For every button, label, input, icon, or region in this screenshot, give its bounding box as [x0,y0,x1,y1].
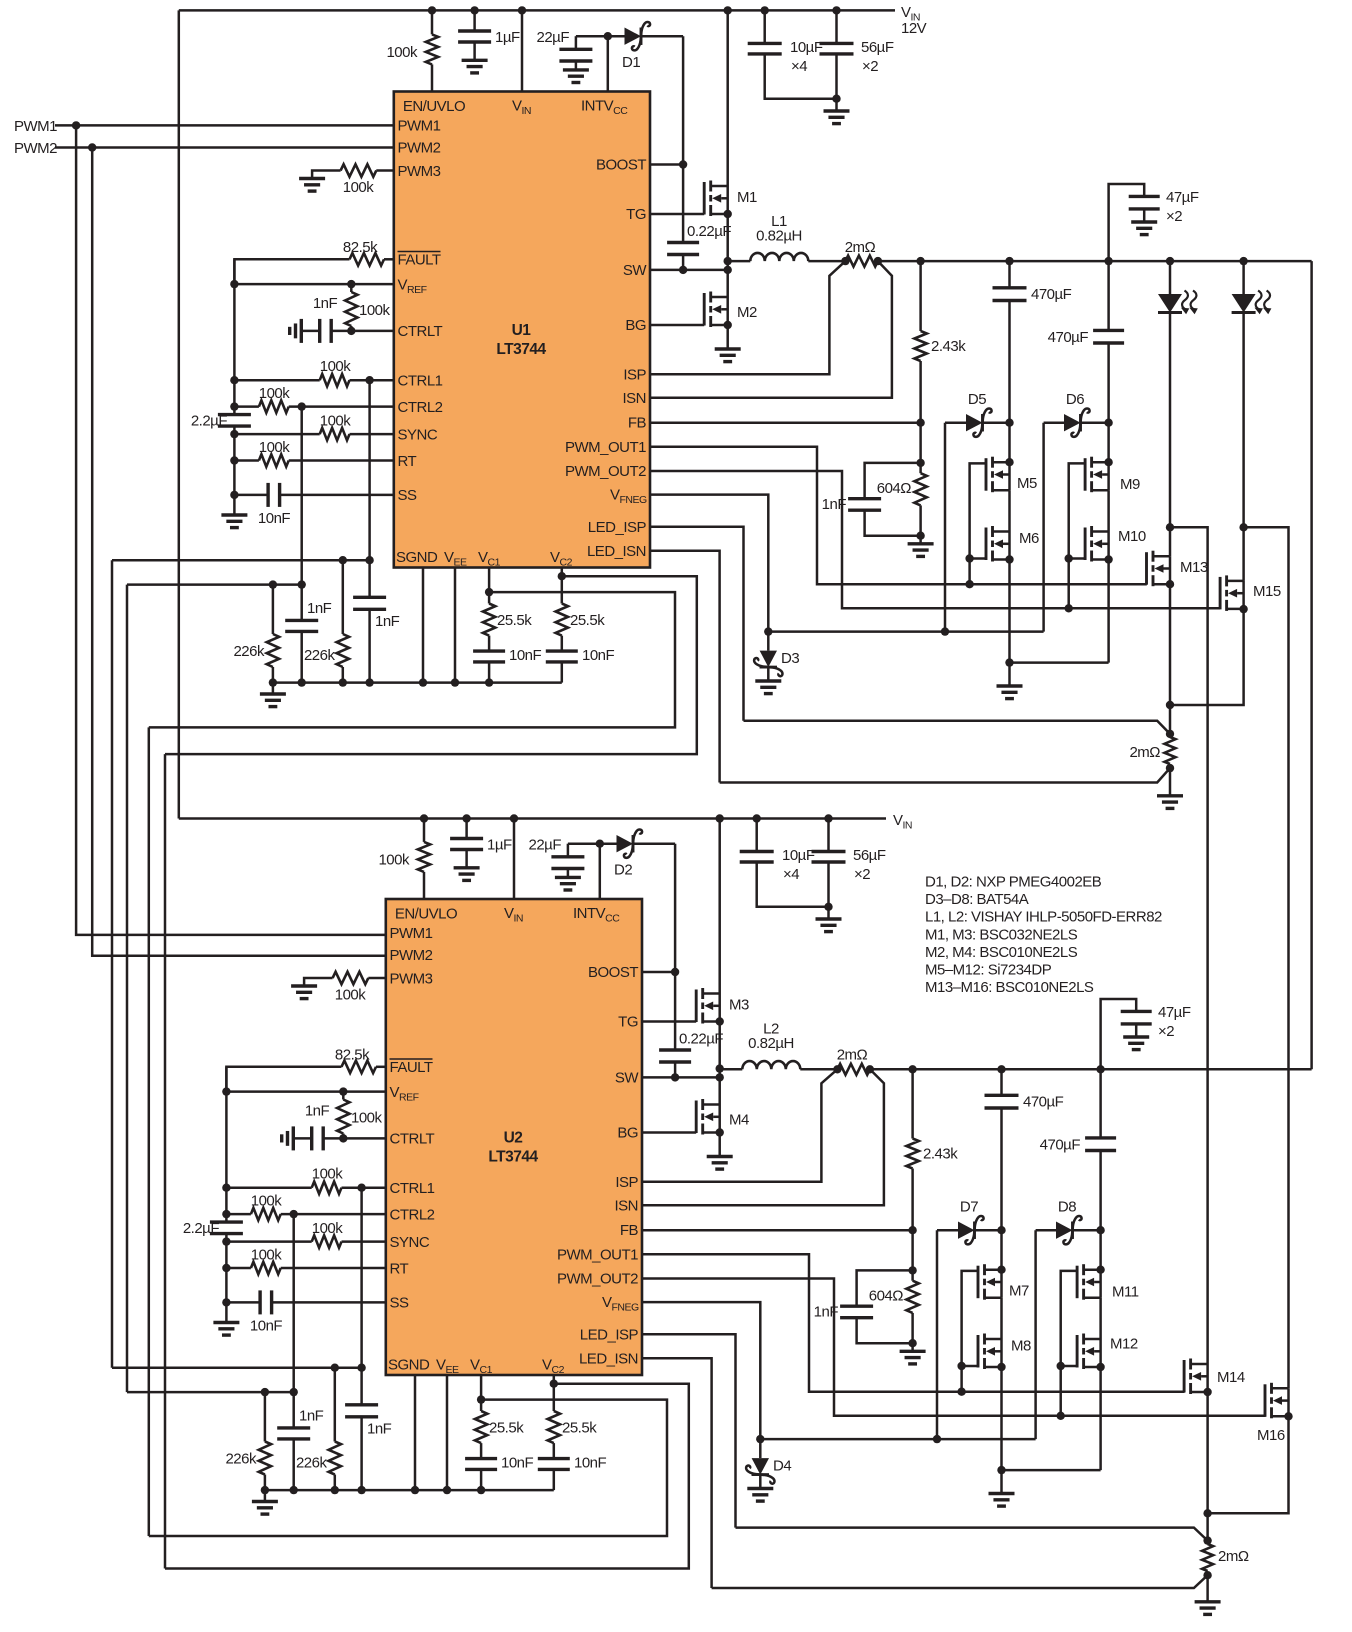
svg-text:100k: 100k [312,1166,344,1183]
svg-text:M10: M10 [1118,528,1146,545]
ground (LED sense, U1 phase) [1157,796,1183,809]
svg-text:604Ω: 604Ω [877,480,912,497]
wire BG pin (U2) [642,1131,696,1134]
diode D2 schottky [614,830,675,879]
capacitor 56µF x2 (U1) [820,6,894,103]
wire M7 source to M8 drain [1000,1298,1003,1339]
resistor 100k (EN/UVLO pull-up, U2) [378,814,430,899]
svg-text:CTRLT: CTRLT [390,1131,435,1148]
wire FB pin (U1) [650,421,921,424]
svg-text:×2: ×2 [854,866,870,883]
wire SW pin (U1) [650,257,732,274]
capacitor 1nF (CTRLT, U1) [301,295,394,343]
capacitor 10nF (VC1, U1) [473,647,541,687]
svg-text:CTRL1: CTRL1 [390,1180,435,1197]
svg-text:M1, M3: BSC032NE2LS: M1, M3: BSC032NE2LS [925,926,1078,943]
wire VREF pin (U1) [230,280,394,288]
capacitor 10nF (VC2, U2) [538,1455,607,1491]
wire PWM1 input [55,121,394,129]
svg-text:LT3744: LT3744 [496,341,546,358]
wire PWM_OUT2 route (U2) [642,1279,1266,1416]
wire VC2 bracket (U2) [165,1384,689,1569]
svg-text:10nF: 10nF [258,510,291,527]
svg-text:D1, D2: NXP PMEG4002EB: D1, D2: NXP PMEG4002EB [925,874,1102,891]
resistor 100k (CTRL1, U2) [222,1166,386,1194]
capacitor 10nF (VC1, U2) [465,1455,533,1495]
transistor M5 NMOS [986,457,1037,493]
resistor 25.5k (VC2, U2) [548,1375,598,1459]
svg-text:ISP: ISP [623,367,646,384]
svg-text:PWM1: PWM1 [390,925,433,942]
svg-text:TG: TG [626,206,646,223]
wire ISN kelvin (U1) [650,261,892,398]
transistor M8 NMOS [978,1334,1031,1372]
svg-text:D1: D1 [622,54,640,71]
resistor 82.5k (FAULT pull-up, U1) [234,239,393,284]
wire CTRL1 share bus (U1) [112,559,370,562]
svg-text:100k: 100k [259,385,291,402]
transistor M2 NMOS [704,292,757,362]
capacitor 47µF x2 (U1) [1109,184,1199,261]
ground (CTRLT cap, U2) [282,1126,294,1150]
svg-text:FAULT: FAULT [398,252,441,269]
op-amp/IC U2 LT3744 body [386,899,642,1375]
svg-text:100k: 100k [320,358,352,375]
transistor M15 NMOS [1170,527,1281,705]
svg-text:BG: BG [625,317,646,334]
svg-text:10nF: 10nF [250,1318,283,1335]
svg-text:1nF: 1nF [313,295,338,312]
svg-text:EN/UVLO: EN/UVLO [403,98,465,115]
svg-text:56µF: 56µF [853,847,886,864]
wire SW pin (U2) [642,1064,724,1081]
svg-text:PWM3: PWM3 [390,971,433,988]
wire VIN pin (U2) [510,814,518,899]
wire M6 source to ground bus [1005,560,1013,667]
wire gate bus M5/M6 [965,463,986,588]
wire VEE pin (U1) [451,568,459,687]
svg-text:FAULT: FAULT [390,1059,433,1076]
transistor M12 NMOS [1077,1334,1138,1372]
svg-text:1nF: 1nF [307,600,332,617]
wire LED_ISP route (U2) [642,1334,1208,1540]
wire SGND rail (U1) [269,678,562,686]
svg-text:0.22µF: 0.22µF [679,1031,723,1048]
svg-text:25.5k: 25.5k [562,1420,597,1437]
svg-text:D4: D4 [773,1458,791,1475]
wire VIN pin (U1) [518,6,526,91]
svg-text:470µF: 470µF [1031,286,1072,303]
svg-text:PWM2: PWM2 [398,140,441,157]
wire M9 source to M10 drain [1107,490,1110,531]
inductor L1 0.82µH [728,213,846,261]
svg-text:100k: 100k [312,1220,344,1237]
ground (soft-start rail, U2) [213,1323,239,1336]
svg-text:ISN: ISN [614,1198,638,1215]
resistor 82.5k (FAULT pull-up, U2) [226,1047,385,1092]
svg-text:D8: D8 [1058,1199,1076,1216]
svg-text:L1, L2: VISHAY IHLP-5050FD-ERR: L1, L2: VISHAY IHLP-5050FD-ERR82 [925,909,1162,926]
resistor 2.43k (U2) [906,1069,958,1234]
wire ISN kelvin (U2) [642,1069,884,1205]
svg-text:2mΩ: 2mΩ [837,1047,868,1064]
capacitor 10µF x4 (U1) [748,6,837,99]
svg-text:M5–M12: Si7234DP: M5–M12: Si7234DP [925,962,1052,979]
wire output rail (U2) [870,1065,1312,1073]
note component list [925,874,1162,997]
ground (LED switch strings, U2) [989,1470,1101,1506]
svg-text:100k: 100k [343,179,375,196]
svg-text:U2: U2 [504,1130,523,1147]
resistor 226k (first, U1) [233,580,279,682]
op-amp/IC U1 LT3744 body [394,92,650,568]
resistor 2mΩ (LED current sense, U2 phase) [1202,1513,1249,1602]
wire VC2 bracket (U1) [165,576,697,754]
transistor M3 NMOS [696,814,749,1104]
wire output rail right edge (shared) [1310,261,1313,1069]
svg-text:BOOST: BOOST [588,964,638,981]
svg-text:M2: M2 [737,304,757,321]
diode D6 schottky [1044,391,1109,437]
capacitor 1nF (CTRLT, U2) [293,1103,386,1151]
svg-text:SW: SW [615,1070,640,1087]
capacitor 1nF (across 604Ω, U2) [814,1270,913,1343]
svg-text:10nF: 10nF [509,647,542,664]
transistor M6 NMOS [986,526,1039,564]
resistor 25.5k (VC1, U1) [483,568,532,652]
svg-text:25.5k: 25.5k [570,612,605,629]
capacitor 10nF (VC2, U1) [546,647,615,683]
capacitor 10nF (SS, U2) [222,1290,386,1334]
IC U1 pin labels [396,98,647,569]
svg-text:100k: 100k [351,1110,383,1127]
ground (SGND rail, U1) [260,683,286,707]
svg-text:2.2µF: 2.2µF [191,413,227,430]
transistor M16 NMOS [1208,1383,1293,1514]
diode D8 schottky [1036,1199,1101,1245]
svg-text:1µF: 1µF [487,837,512,854]
capacitor 1µF (U2) [450,814,512,880]
capacitor 22µF (U1) [537,29,593,83]
diode D7 schottky [937,1199,1002,1245]
svg-text:SYNC: SYNC [398,427,438,444]
wire D8 anode to VFNEG bus [1034,1230,1037,1439]
svg-text:×2: ×2 [862,58,878,75]
svg-text:22µF: 22µF [529,837,562,854]
wire VC1 bracket (U2) [149,1400,667,1536]
svg-text:RT: RT [390,1261,409,1278]
svg-text:FB: FB [620,1222,639,1239]
svg-text:226k: 226k [304,647,336,664]
svg-text:SGND: SGND [388,1357,430,1374]
resistor 100k (VREF to CTRLT, U2) [337,1092,382,1143]
svg-text:M12: M12 [1110,1336,1138,1353]
svg-text:470µF: 470µF [1040,1137,1081,1154]
svg-text:10µF: 10µF [782,847,815,864]
transistor M4 NMOS [696,1099,749,1169]
svg-text:PWM2: PWM2 [14,140,57,157]
wire SGND rail (U2) [261,1486,554,1494]
svg-text:100k: 100k [251,1193,283,1210]
svg-text:ISP: ISP [615,1174,638,1191]
wire BG pin (U1) [650,324,704,327]
svg-text:LED_ISN: LED_ISN [587,543,646,560]
transistor M7 NMOS [978,1264,1029,1300]
wire D1 cathode to BOOST [682,36,685,164]
wire VC1 bracket (U1) [149,592,675,727]
svg-text:12V: 12V [901,20,927,37]
svg-text:1nF: 1nF [367,1421,392,1438]
ground (soft-start rail, U1) [221,515,247,528]
svg-text:TG: TG [618,1014,638,1031]
resistor 226k (first, U2) [225,1388,271,1490]
capacitor 0.22µF (U2) [659,972,723,1082]
svg-text:M7: M7 [1009,1283,1029,1300]
wire M8 source to ground bus [997,1367,1005,1474]
svg-text:2.43k: 2.43k [923,1146,958,1163]
wire CTRL2 share bus (U1) [127,583,302,586]
resistor 100k (SYNC, U1) [230,413,394,441]
IC U2 pin labels [388,905,639,1376]
svg-text:M1: M1 [737,189,757,206]
svg-text:PWM_OUT1: PWM_OUT1 [557,1247,638,1264]
diode D5 schottky [945,391,1010,437]
wire M5 source to M6 drain [1008,490,1011,531]
svg-text:D3–D8: BAT54A: D3–D8: BAT54A [925,891,1029,908]
wire VIN 12V top rail [179,9,895,12]
svg-text:LED_ISP: LED_ISP [588,519,647,536]
svg-text:PWM3: PWM3 [398,163,441,180]
wire D7 anode to VFNEG bus [933,1230,941,1443]
inductor L2 0.82µH [720,1021,838,1070]
svg-text:CTRL2: CTRL2 [398,399,443,416]
wire output rail to 470µF second (U2) [1099,1069,1102,1138]
svg-text:PWM_OUT1: PWM_OUT1 [565,439,646,456]
svg-text:CTRLT: CTRLT [398,323,443,340]
svg-text:0.82µH: 0.82µH [748,1035,794,1052]
svg-text:PWM_OUT2: PWM_OUT2 [557,1271,638,1288]
svg-text:D7: D7 [960,1199,978,1216]
resistor 100k (CTRL2, U1) [230,385,394,413]
resistor 100k (SYNC, U2) [222,1220,386,1248]
svg-text:ISN: ISN [622,390,646,407]
ground (LED switch strings, U1) [997,663,1109,699]
svg-text:M13–M16: BSC010NE2LS: M13–M16: BSC010NE2LS [925,979,1094,996]
wire CTRL1 share vertical [111,560,114,1367]
wire VFNEG route (U1) [650,495,1044,636]
svg-text:2mΩ: 2mΩ [1129,744,1160,761]
svg-text:226k: 226k [233,643,265,660]
transistor M13 NMOS [1147,527,1208,709]
svg-text:SYNC: SYNC [390,1234,430,1251]
LED string 2 LED [1232,257,1272,532]
svg-text:FB: FB [628,415,647,432]
wire TG pin (U2) [642,1020,696,1023]
svg-text:SGND: SGND [396,549,438,566]
capacitor 470µF (second, U1) [1048,329,1124,466]
svg-text:M16: M16 [1257,1427,1285,1444]
wire ISP kelvin (U2) [642,1069,837,1182]
svg-text:D6: D6 [1066,391,1084,408]
wire gate bus M7/M8 [957,1271,978,1396]
wire D5 anode to VFNEG bus [941,423,949,636]
svg-text:EN/UVLO: EN/UVLO [395,906,457,923]
svg-text:1nF: 1nF [305,1103,330,1120]
resistor 100k (RT, U1) [230,439,394,467]
capacitor 1µF (U1) [458,6,520,73]
wire M10 source to ground bus [1107,560,1110,663]
wire ISP kelvin (U1) [650,261,845,374]
capacitor 1nF (CTRL2 filter, U1) [285,407,331,683]
ground (input caps, U1) [824,99,850,124]
resistor 100k (PWM3 pulldown, U2) [291,972,386,1004]
label VIN (bottom half) [893,812,912,832]
svg-text:1nF: 1nF [375,613,400,630]
svg-text:2mΩ: 2mΩ [1218,1548,1249,1565]
wire LED1 cathode to M14 column [1170,527,1208,1364]
svg-text:47µF: 47µF [1158,1004,1191,1021]
svg-text:LED_ISN: LED_ISN [579,1351,638,1368]
wire BOOST pin (U1) [650,160,687,168]
resistor 100k (CTRL2, U2) [222,1193,386,1221]
diode D1 schottky [622,22,683,71]
wire TG pin (U1) [650,213,704,216]
svg-text:M11: M11 [1112,1284,1139,1301]
wire M12 source to ground bus [1099,1367,1102,1470]
transistor M9 NMOS [1085,457,1140,493]
resistor 100k (VREF to CTRLT, U1) [345,284,390,335]
svg-text:PWM_OUT2: PWM_OUT2 [565,463,646,480]
wire CTRL2 share vertical [126,585,129,1393]
wire VC2 share vertical [164,754,167,1568]
svg-text:25.5k: 25.5k [489,1420,524,1437]
transistor M11 NMOS [1077,1264,1139,1300]
svg-text:M9: M9 [1120,476,1140,493]
capacitor 10µF x4 (U2) [740,814,829,907]
resistor 100k (EN/UVLO pull-up, U1) [386,6,438,91]
wire VFNEG route (U2) [642,1302,1036,1443]
svg-text:M4: M4 [729,1112,749,1129]
svg-text:2mΩ: 2mΩ [845,239,876,256]
svg-text:10nF: 10nF [574,1455,607,1472]
svg-text:M8: M8 [1011,1338,1031,1355]
wire LED_ISP route (U1) [650,527,1170,734]
svg-text:M5: M5 [1017,475,1037,492]
svg-text:0.22µF: 0.22µF [687,223,731,240]
svg-text:226k: 226k [296,1455,328,1472]
resistor 604Ω (U1) [877,423,934,557]
svg-text:M15: M15 [1253,583,1281,600]
capacitor 22µF (U2) [529,837,585,891]
svg-text:BG: BG [617,1125,638,1142]
svg-text:226k: 226k [225,1451,257,1468]
svg-text:D5: D5 [968,391,986,408]
wire VEE pin (U2) [443,1375,451,1494]
svg-text:U1: U1 [512,322,532,339]
svg-text:100k: 100k [386,44,418,61]
diode D4 schottky (VFNEG clamp) [746,1439,791,1501]
svg-text:100k: 100k [320,413,352,430]
capacitor 470µF (second, U2) [1040,1137,1116,1274]
LED string 1 LED [1158,257,1198,532]
wire SGND pin (U1) [419,568,427,687]
wire LED_ISN route (U1) [650,551,1170,783]
svg-text:10nF: 10nF [582,647,615,664]
svg-text:SS: SS [398,487,418,504]
ground (LED sense, U2 phase) [1195,1602,1221,1615]
svg-text:100k: 100k [378,852,410,869]
svg-text:56µF: 56µF [861,39,894,56]
wire VREF pin (U2) [222,1087,386,1095]
wire PWM2 to U2 [92,148,386,956]
svg-text:10µF: 10µF [790,39,823,56]
svg-text:0.82µH: 0.82µH [756,228,802,245]
svg-text:PWM2: PWM2 [390,947,433,964]
svg-text:100k: 100k [251,1247,283,1264]
capacitor 2.2µF (soft-start rail, U2) [183,1067,243,1323]
ground (SGND rail, U2) [252,1490,278,1514]
wire INTVCC to node (U2) [568,840,617,900]
svg-text:×2: ×2 [1158,1023,1174,1040]
wire CTRL1 share bus (U2) [112,1366,362,1369]
svg-text:×4: ×4 [783,866,799,883]
wire PWM1 to U2 [76,125,386,935]
resistor 25.5k (VC2, U1) [556,568,606,652]
svg-text:M13: M13 [1180,559,1208,576]
resistor 226k (second, U1) [304,556,349,683]
wire SGND pin (U2) [411,1375,419,1494]
resistor 100k (CTRL1, U1) [230,358,394,386]
svg-text:82.5k: 82.5k [343,239,378,256]
svg-text:D2: D2 [614,862,632,879]
wire D6 anode to VFNEG bus [1042,423,1045,632]
resistor 2mΩ (LED current sense, U1 phase) [1129,705,1175,796]
wire CTRL2 share bus (U2) [127,1391,294,1394]
svg-text:M6: M6 [1019,530,1039,547]
svg-text:100k: 100k [359,302,391,319]
svg-text:100k: 100k [335,987,367,1004]
wire LED_ISN route (U2) [642,1358,1208,1588]
capacitor 2.2µF (soft-start rail, U1) [191,259,251,515]
wire gate bus M9/M10 [1065,463,1086,612]
wire FB pin (U2) [642,1229,913,1232]
svg-text:D3: D3 [781,650,799,667]
ground (CTRLT cap, U1) [290,319,302,343]
svg-text:2.2µF: 2.2µF [183,1220,219,1237]
wire PWM_OUT1 route (U2) [642,1254,1185,1391]
svg-text:1µF: 1µF [495,29,520,46]
svg-text:470µF: 470µF [1023,1094,1064,1111]
capacitor 470µF (first, U1) [993,261,1072,466]
svg-text:2.43k: 2.43k [931,338,966,355]
wire BOOST pin (U2) [642,968,679,976]
svg-text:LT3744: LT3744 [488,1149,538,1166]
svg-text:LED_ISP: LED_ISP [580,1327,639,1344]
capacitor 0.22µF (U1) [667,165,731,275]
resistor 2mΩ (inductor current sense, U2) [833,1047,874,1075]
wire LED2 cathode to M16 column [1244,527,1289,1388]
svg-text:×4: ×4 [791,58,807,75]
resistor 2.43k (U1) [914,261,966,427]
resistor 25.5k (VC1, U2) [475,1375,524,1459]
svg-text:1nF: 1nF [299,1408,324,1425]
svg-text:SW: SW [623,262,648,279]
svg-text:M14: M14 [1217,1369,1245,1386]
wire PWM_OUT1 route (U1) [650,447,1147,584]
wire VIN rail link (top to bottom half) [178,10,181,818]
capacitor 1nF (CTRL1 filter, U2) [345,1188,392,1490]
transistor M10 NMOS [1085,526,1146,564]
